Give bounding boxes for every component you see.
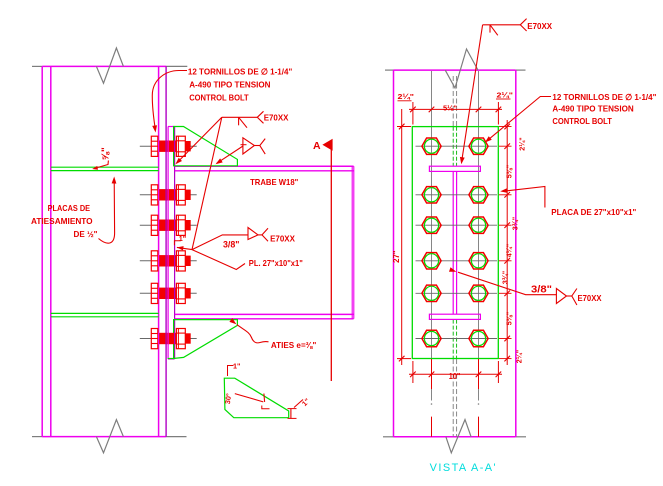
bolt row 1 centerline (right view) [416, 145, 498, 147]
svg-text:E70XX: E70XX [264, 113, 289, 123]
weld symbol at gusset: leader [217, 146, 243, 163]
weld symbol at gusset: tail arrow [254, 145, 259, 147]
note 5/8 label at plate [94, 161, 108, 169]
bolt row 6 (left view) [140, 329, 197, 349]
note 12 TORNILLOS right: leader [487, 97, 552, 142]
dim chain right: dimension line [506, 120, 508, 365]
section cut line A [330, 150, 332, 382]
bolt row 2 left hexagon (section) [422, 187, 441, 203]
svg-text:2¼": 2¼" [497, 91, 514, 100]
svg-text:4¼": 4¼" [505, 244, 514, 257]
left view: end plate PL 27x10x1 [167, 127, 169, 360]
weld symbol at gusset: fillet triangle [243, 138, 255, 154]
bolt row 2 centerline (right view) [416, 194, 498, 196]
gusset detail: angle line [235, 394, 263, 402]
left view: beam bottom flange [175, 313, 354, 315]
bolt row 6 right hexagon (section) [469, 330, 488, 346]
weld note E70XX upper: long leader to plate edge [192, 117, 222, 249]
dim bottom 10in: extension lines [412, 361, 414, 383]
dim bottom: red stubs above bottom edge [431, 417, 433, 437]
weld note E70XX top right: open arrowhead [520, 19, 526, 31]
bolt row 6 left hexagon (section) [422, 330, 441, 346]
weld note E70XX upper: leader [177, 117, 222, 163]
weld note E70XX upper: field weld flag [238, 117, 240, 125]
svg-text:A-490 TIPO TENSION: A-490 TIPO TENSION [552, 104, 633, 114]
svg-text:VISTA A-A': VISTA A-A' [430, 462, 498, 474]
svg-text:ATIES e=⅜": ATIES e=⅜" [271, 340, 316, 350]
note: 12 TORNILLOS leader [152, 71, 187, 129]
left view: flange and plate lines crossing bolt shanks [158, 140, 160, 152]
left view: column left flange inner line [50, 66, 52, 436]
dim top: dimension line [409, 108, 502, 110]
right view: column flange left edge [393, 70, 395, 437]
svg-text:DE ½": DE ½" [74, 229, 98, 239]
bolt row 1 left hexagon (section) [422, 138, 441, 154]
bolt row 2 (left view) [140, 185, 197, 205]
svg-text:CONTROL BOLT: CONTROL BOLT [189, 93, 249, 103]
right view: bottom break symbol [446, 420, 471, 453]
left view: column right flange outer line [158, 66, 160, 436]
dim chain right: extension stubs [499, 126, 512, 128]
svg-text:5½": 5½" [443, 104, 458, 113]
note 3/8 E70XX right: leader [458, 272, 556, 295]
left view: lower continuity plate (green) [51, 312, 159, 314]
left view: top stiffener gusset (green) [174, 127, 238, 166]
note 1 inch at plate edge [174, 241, 180, 246]
weld note E70XX top right: leader to beam web [462, 25, 483, 161]
left view: column right flange inner line [165, 66, 167, 436]
note PL 27x10x1: leader [192, 250, 245, 270]
svg-text:E70XX: E70XX [527, 21, 552, 31]
bolt row 1 right hexagon (section) [469, 138, 488, 154]
left view: beam TRABE W18 top flange [175, 165, 354, 167]
weld note E70XX top right: line and flag [483, 24, 521, 26]
right view: beam web section lines [452, 171, 454, 314]
right view: hidden web dashed lines in plate lower [452, 320, 454, 359]
svg-text:PL. 27"x10"x1": PL. 27"x10"x1" [249, 258, 303, 268]
bolt row 4 right hexagon (section) [469, 253, 488, 269]
bolt row 4 left hexagon (section) [422, 253, 441, 269]
svg-text:E70XX: E70XX [578, 293, 602, 303]
bolt row 5 right hexagon (section) [469, 285, 488, 301]
left view: beam end line [351, 166, 353, 318]
right view: top break symbol [445, 49, 478, 88]
bolt row 4 (left view) [140, 251, 197, 271]
right view: centerline dashed below plate [452, 359, 454, 437]
svg-text:3/8": 3/8" [531, 284, 552, 296]
bolt row 1 (left view) [140, 136, 197, 156]
svg-text:30°: 30° [223, 393, 233, 405]
svg-text:TRABE W18": TRABE W18" [250, 177, 298, 187]
left view: column top edge line [32, 65, 42, 67]
svg-text:PLACA DE 27"x10"x1": PLACA DE 27"x10"x1" [551, 207, 636, 217]
right view: column flange top edge [385, 69, 394, 71]
bolt row 5 centerline (right view) [416, 292, 498, 294]
gusset plate detail (green outline) [224, 378, 288, 418]
right view: plate PLACA 27x10x1 (green) [412, 127, 498, 359]
note 3/8 left: fillet triangle symbol [248, 228, 258, 240]
ATIES e=3/8 note leader [237, 325, 269, 343]
svg-text:A-490 TIPO TENSION: A-490 TIPO TENSION [189, 80, 270, 90]
svg-text:3¾": 3¾" [511, 217, 520, 230]
svg-text:12 TORNILLOS DE ∅ 1-1/4": 12 TORNILLOS DE ∅ 1-1/4" [188, 66, 292, 76]
svg-text:⅝": ⅝" [101, 147, 112, 160]
bolt row 5 left hexagon (section) [422, 285, 441, 301]
gusset detail: 1 inch dim top [228, 366, 234, 377]
gusset detail: 1 inch dim right [290, 409, 292, 419]
left view: column left flange outer line [41, 66, 43, 436]
bolt row 4 centerline (right view) [416, 260, 498, 262]
svg-text:3/8": 3/8" [223, 239, 240, 250]
svg-text:2¼": 2¼" [518, 137, 527, 150]
bolt row 3 right hexagon (section) [469, 217, 488, 233]
bolt row 3 (left view) [140, 215, 197, 235]
left view: upper continuity plate (green) [51, 166, 159, 168]
bolt row 5 (left view) [140, 283, 197, 303]
dim bottom 10in: dimension line [409, 373, 502, 375]
svg-text:2¼": 2¼" [515, 350, 524, 363]
gusset detail: corner mark [262, 406, 270, 409]
note 3/8 right: fillet triangle [556, 289, 566, 304]
svg-text:ATIESAMIENTO: ATIESAMIENTO [31, 216, 93, 226]
svg-text:27": 27" [392, 250, 401, 263]
bolt row 2 right hexagon (section) [469, 187, 488, 203]
bolt row 3 centerline (right view) [416, 224, 498, 226]
right view: bolt gage centerline right [478, 71, 480, 401]
svg-text:1": 1" [233, 362, 240, 371]
svg-text:E70XX: E70XX [270, 234, 295, 244]
dim top: extension lines [412, 102, 414, 125]
left view: column bottom break symbol [96, 420, 123, 453]
right view: beam bottom flange section [429, 314, 480, 319]
left view: bottom gusset base tail (green) [168, 358, 175, 360]
svg-text:A: A [313, 140, 321, 152]
left view: column top break symbol [96, 48, 123, 83]
right view: hidden web dashed lines in plate upper [452, 127, 454, 166]
right view: column flange right edge [515, 70, 517, 437]
bolt row 3 left hexagon (section) [422, 217, 441, 233]
bolt row 6 centerline (right view) [416, 338, 498, 340]
right view: hidden web dashed lines upper [452, 76, 454, 126]
svg-text:3¾": 3¾" [501, 271, 510, 284]
svg-text:12 TORNILLOS DE ∅ 1-1/4": 12 TORNILLOS DE ∅ 1-1/4" [552, 92, 656, 102]
left view: bottom stiffener gusset (green) [174, 320, 238, 359]
svg-text:5⅜": 5⅜" [505, 312, 514, 325]
weld note E70XX upper: open arrowhead [257, 111, 263, 123]
svg-text:10": 10" [449, 372, 461, 381]
svg-text:CONTROL BOLT: CONTROL BOLT [552, 116, 612, 126]
left view: column bottom edge line [32, 436, 42, 438]
svg-text:PLACAS DE: PLACAS DE [48, 203, 91, 213]
svg-text:5⅜": 5⅜" [505, 165, 514, 178]
right view: column flange bottom edge [383, 436, 394, 438]
dim left 27in: dimension line [401, 109, 403, 365]
note PLACA right: leader [503, 187, 545, 208]
right view: beam top flange section [429, 166, 480, 171]
note PLACAS leader [99, 179, 115, 243]
dim left 27in: extension lines [397, 126, 411, 128]
note 3/8 E70XX left: leader [192, 235, 248, 250]
right view: bolt gage centerline left [431, 71, 433, 401]
svg-text:1": 1" [179, 234, 186, 243]
svg-text:2¼": 2¼" [398, 92, 415, 101]
